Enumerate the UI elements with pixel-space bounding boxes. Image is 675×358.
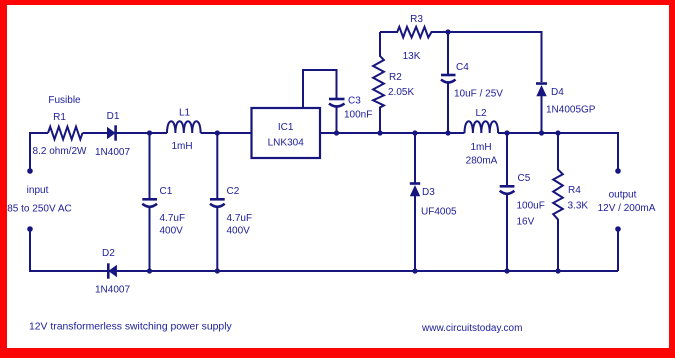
- svg-text:D1: D1: [107, 111, 120, 122]
- diode D1: [107, 127, 116, 139]
- svg-text:8.2 ohm/2W: 8.2 ohm/2W: [33, 146, 87, 157]
- wire: L1 to IC1: [201, 132, 252, 134]
- node: junction D3/rail: [412, 130, 417, 135]
- svg-text:2.05K: 2.05K: [388, 87, 414, 98]
- svg-text:C3: C3: [348, 96, 361, 107]
- capacitor C5: [506, 133, 508, 186]
- svg-text:R3: R3: [410, 14, 423, 25]
- svg-text:input: input: [27, 185, 49, 196]
- svg-text:1mH: 1mH: [470, 142, 491, 153]
- capacitor C2: [216, 133, 218, 198]
- node: junction R2/rail: [377, 130, 382, 135]
- svg-text:100uF: 100uF: [517, 201, 545, 212]
- svg-text:C1: C1: [160, 186, 173, 197]
- wire: top loop to D4: [448, 32, 542, 82]
- svg-text:D2: D2: [102, 248, 115, 259]
- node: output terminal bottom: [615, 226, 621, 232]
- svg-text:10uF / 25V: 10uF / 25V: [454, 89, 503, 100]
- capacitor C4: [447, 32, 449, 74]
- node: junction D4/rail: [539, 130, 544, 135]
- node: output terminal top: [615, 168, 621, 174]
- svg-text:16V: 16V: [517, 217, 535, 228]
- resistor R1: [48, 127, 83, 140]
- wire: D1 to L1: [116, 132, 167, 134]
- svg-text:400V: 400V: [227, 226, 251, 237]
- wire: bottom rail to output: [617, 229, 619, 271]
- diode D4: [536, 82, 547, 85]
- svg-text:Fusible: Fusible: [48, 95, 81, 106]
- node: junction C4/rail: [445, 130, 450, 135]
- wire: main rail right of IC1: [320, 132, 465, 134]
- svg-text:output: output: [609, 190, 637, 201]
- svg-text:D4: D4: [551, 87, 564, 98]
- svg-text:L2: L2: [475, 108, 487, 119]
- node: junction C2/rail: [215, 130, 220, 135]
- svg-text:4.7uF: 4.7uF: [227, 213, 253, 224]
- svg-text:UF4005: UF4005: [421, 207, 457, 218]
- svg-text:LNK304: LNK304: [268, 138, 305, 149]
- svg-text:12V transformerless switching: 12V transformerless switching power supp…: [29, 322, 233, 333]
- node: C5 bottom: [504, 268, 509, 273]
- svg-text:85 to 250V AC: 85 to 250V AC: [7, 204, 72, 215]
- svg-text:12V / 200mA: 12V / 200mA: [598, 203, 656, 214]
- svg-text:R1: R1: [53, 112, 66, 123]
- svg-text:IC1: IC1: [278, 122, 294, 133]
- svg-text:R2: R2: [389, 72, 402, 83]
- node: junction C3/rail: [334, 130, 339, 135]
- node: C1 bottom: [147, 268, 152, 273]
- node: junction R4/rail: [555, 130, 560, 135]
- svg-text:1N4007: 1N4007: [95, 147, 130, 158]
- diode D2: [107, 263, 110, 278]
- node: junction C1/rail: [147, 130, 152, 135]
- svg-text:www.circuitstoday.com: www.circuitstoday.com: [421, 323, 522, 334]
- svg-text:C4: C4: [456, 62, 469, 73]
- svg-text:C5: C5: [518, 173, 531, 184]
- IC U1: IC1 LNK304 box: [252, 108, 321, 158]
- node: D3 bottom: [412, 268, 417, 273]
- svg-text:D3: D3: [422, 187, 435, 198]
- resistor R4: [553, 133, 563, 271]
- svg-text:1mH: 1mH: [171, 141, 192, 152]
- svg-text:280mA: 280mA: [466, 156, 498, 167]
- diode D3: [414, 133, 416, 183]
- svg-text:3.3K: 3.3K: [568, 201, 589, 212]
- wire: R1 to D1: [83, 132, 108, 134]
- svg-text:400V: 400V: [160, 226, 184, 237]
- svg-text:4.7uF: 4.7uF: [160, 213, 186, 224]
- node: C2 bottom: [215, 268, 220, 273]
- svg-text:L1: L1: [179, 108, 191, 119]
- resistor R2: [373, 32, 384, 133]
- node: junction C5/rail: [504, 130, 509, 135]
- wire: feedback loop IC1 top to C3: [303, 70, 337, 108]
- wire: L2 to output corner: [498, 133, 618, 171]
- svg-text:C2: C2: [227, 186, 240, 197]
- node: input terminal top: [27, 168, 33, 174]
- svg-text:1N4007: 1N4007: [95, 285, 130, 296]
- wire: bottom rail: [30, 229, 108, 271]
- capacitor C1: [149, 133, 151, 198]
- node: junction C4/top: [445, 29, 450, 34]
- inductor L1: [167, 121, 201, 133]
- wire: main rail left segment: [30, 133, 48, 171]
- node: input terminal bottom: [27, 226, 33, 232]
- svg-text:100nF: 100nF: [344, 110, 372, 121]
- svg-text:R4: R4: [568, 185, 581, 196]
- svg-text:13K: 13K: [403, 51, 421, 62]
- node: R4 bottom: [555, 268, 560, 273]
- resistor R3: [380, 27, 448, 38]
- inductor L2: [465, 121, 499, 133]
- capacitor C3: [329, 98, 345, 101]
- svg-text:1N4005GP: 1N4005GP: [546, 105, 596, 116]
